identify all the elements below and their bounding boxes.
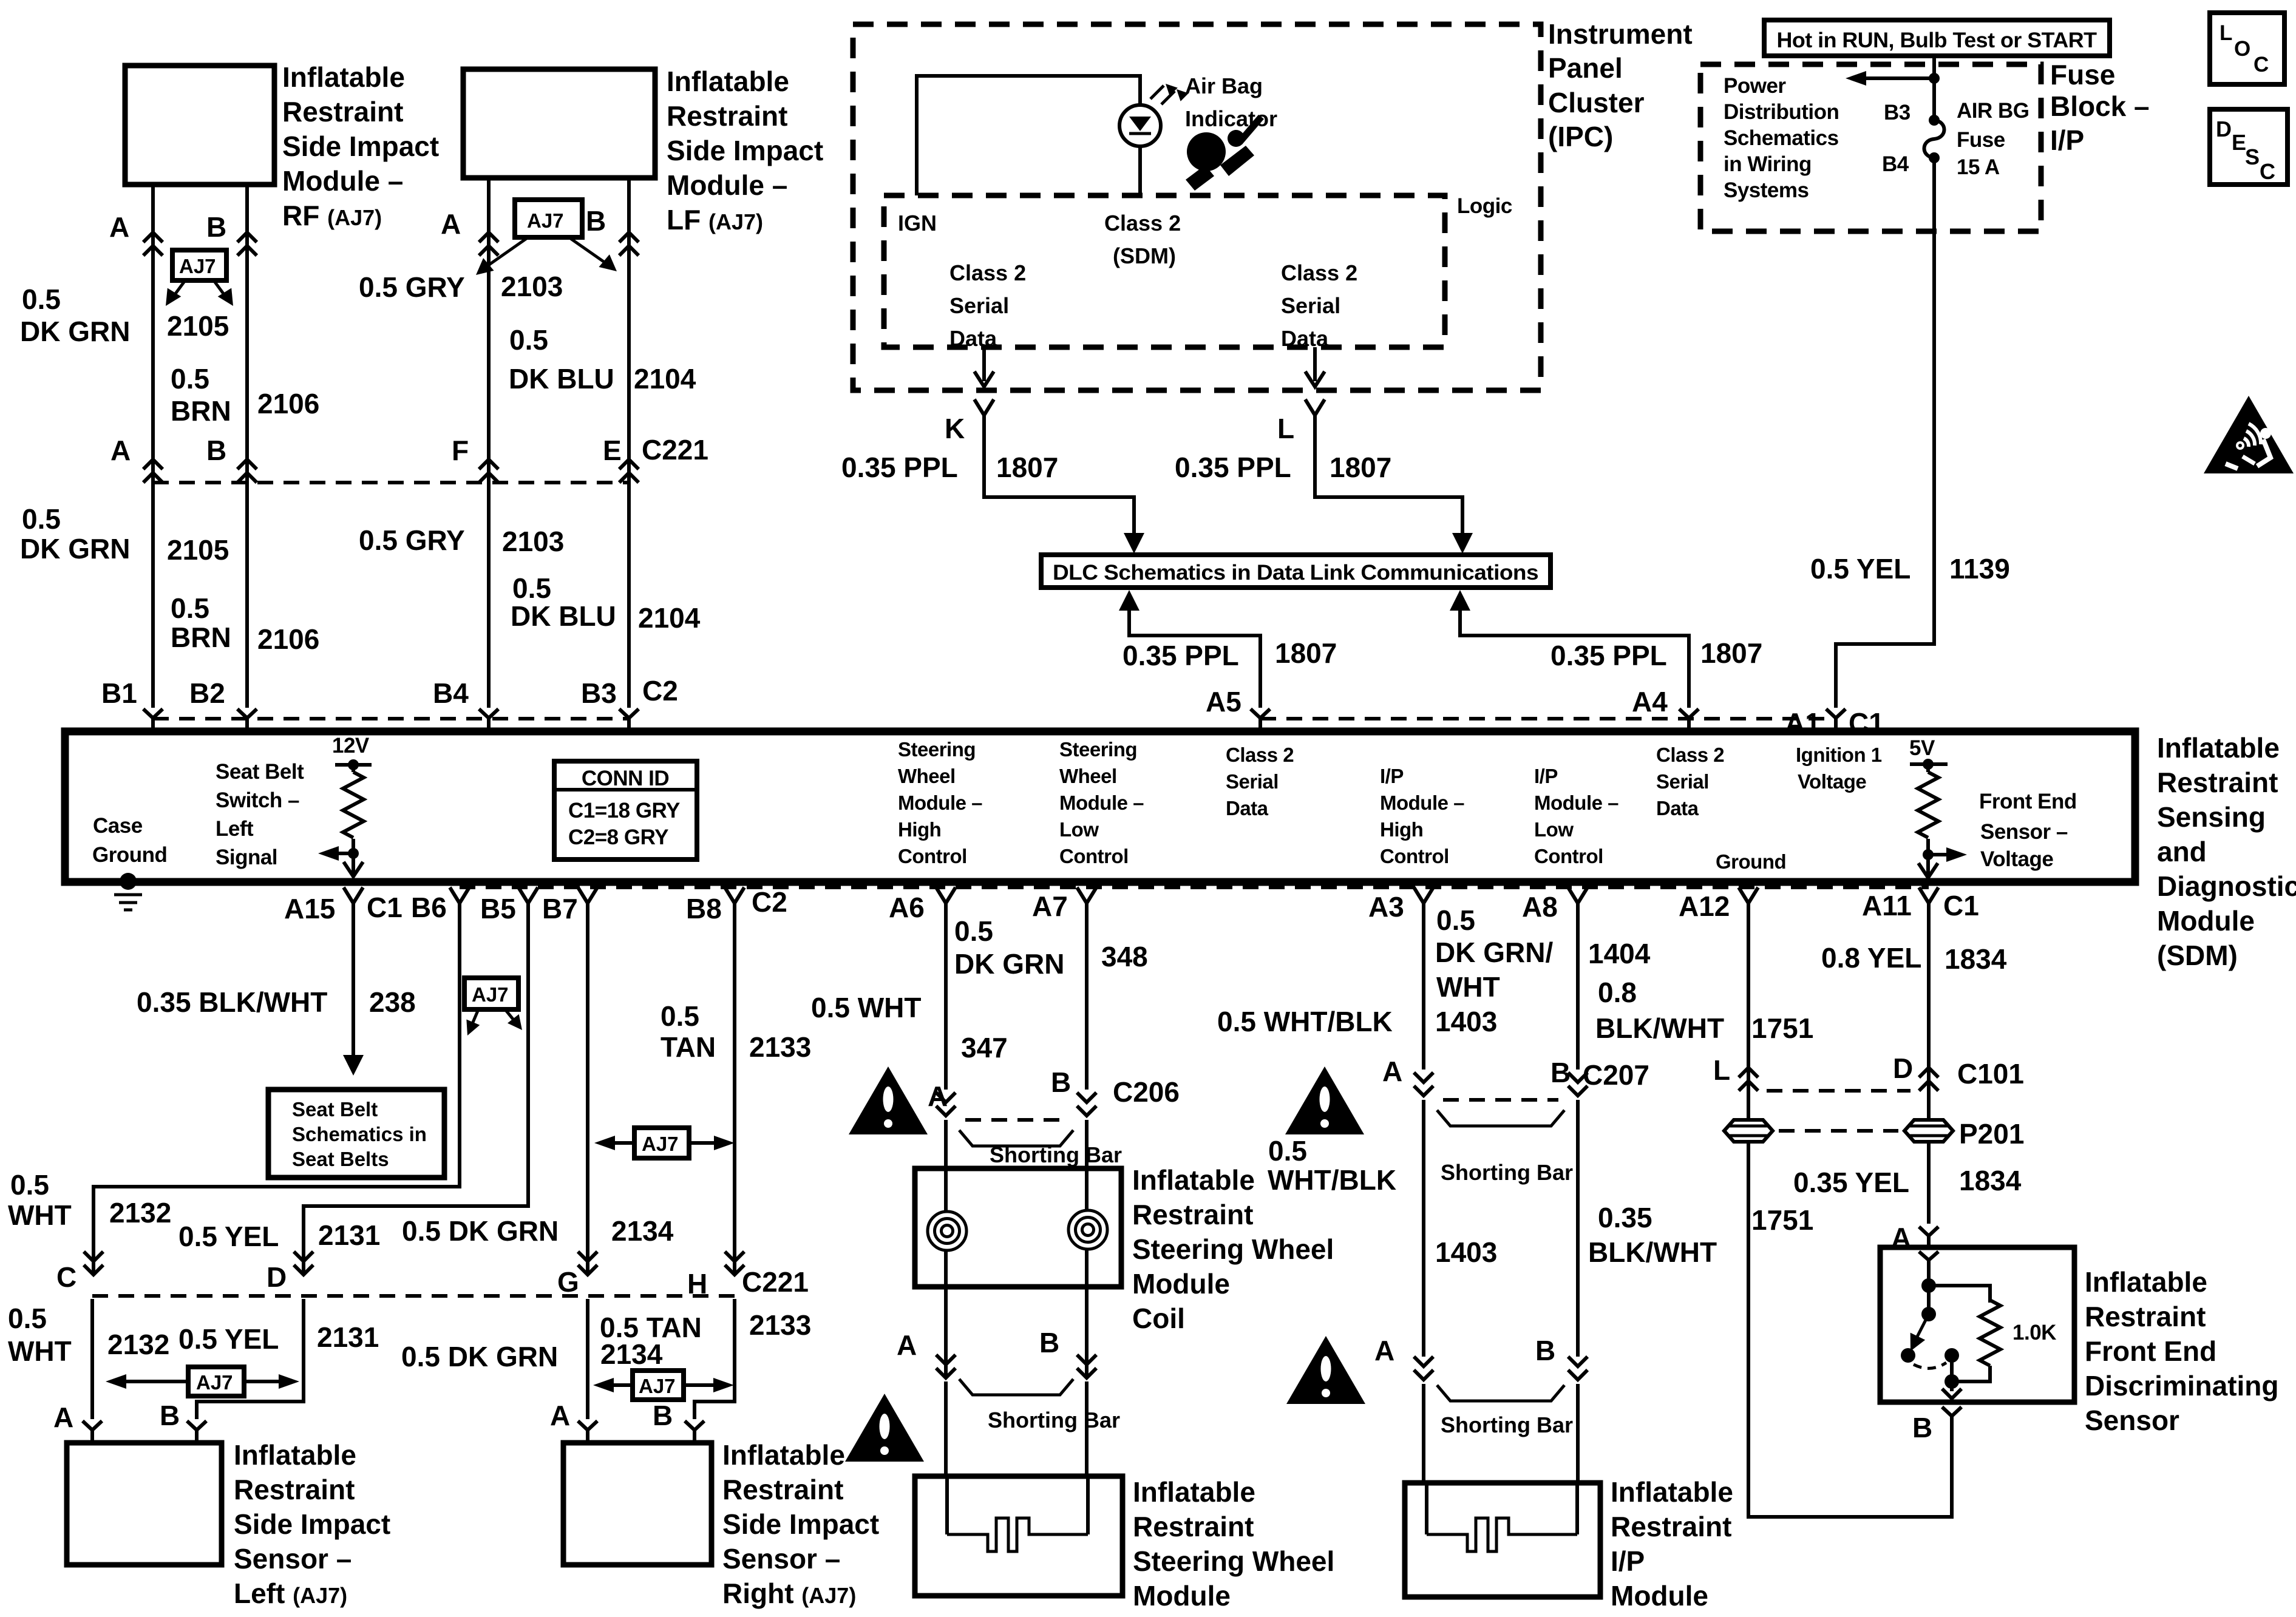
svg-text:A: A [109, 211, 129, 243]
svg-text:BRN: BRN [171, 395, 231, 427]
svg-text:Switch –: Switch – [216, 788, 299, 812]
svg-text:0.8 YEL: 0.8 YEL [1821, 942, 1921, 974]
svg-text:AIR BG: AIR BG [1957, 99, 2029, 123]
svg-text:WHT/BLK: WHT/BLK [1268, 1164, 1396, 1196]
svg-text:1403: 1403 [1435, 1006, 1497, 1037]
svg-text:Restraint: Restraint [2085, 1301, 2206, 1332]
svg-text:2131: 2131 [318, 1219, 380, 1251]
svg-text:0.5 WHT/BLK: 0.5 WHT/BLK [1217, 1006, 1393, 1037]
svg-text:0.35 PPL: 0.35 PPL [841, 452, 958, 483]
svg-text:1834: 1834 [1944, 943, 2007, 975]
svg-text:0.5 GRY: 0.5 GRY [359, 524, 465, 556]
svg-text:Module: Module [1132, 1268, 1230, 1300]
svg-text:347: 347 [961, 1032, 1008, 1063]
svg-text:L: L [1713, 1054, 1730, 1086]
svg-text:BLK/WHT: BLK/WHT [1588, 1236, 1717, 1268]
svg-text:A6: A6 [889, 892, 925, 923]
svg-text:G: G [557, 1266, 579, 1298]
svg-text:A: A [1374, 1335, 1394, 1366]
svg-text:Voltage: Voltage [1798, 770, 1866, 793]
svg-text:0.5: 0.5 [1268, 1135, 1307, 1167]
svg-text:Module: Module [2157, 905, 2255, 937]
svg-text:Panel: Panel [1548, 52, 1623, 84]
svg-text:B: B [1039, 1327, 1059, 1358]
svg-text:0.5: 0.5 [8, 1303, 47, 1334]
svg-text:0.5: 0.5 [661, 1000, 699, 1032]
svg-text:Module: Module [1611, 1580, 1708, 1612]
svg-text:Class 2: Class 2 [1656, 744, 1724, 766]
svg-text:DK BLU: DK BLU [509, 363, 614, 395]
svg-text:C2: C2 [752, 886, 787, 918]
svg-text:DLC Schematics in Data Link Co: DLC Schematics in Data Link Communicatio… [1053, 561, 1538, 585]
svg-text:Fuse: Fuse [2050, 59, 2115, 90]
svg-text:Fuse: Fuse [1957, 128, 2005, 152]
svg-text:A3: A3 [1368, 891, 1404, 923]
svg-text:0.5 DK GRN: 0.5 DK GRN [402, 1215, 559, 1247]
svg-text:Data: Data [949, 326, 997, 351]
svg-text:0.5 GRY: 0.5 GRY [359, 271, 465, 303]
svg-text:BRN: BRN [171, 622, 231, 653]
svg-text:I/P: I/P [1534, 765, 1558, 787]
svg-text:Restraint: Restraint [2157, 767, 2278, 798]
svg-text:Restraint: Restraint [667, 100, 787, 132]
svg-text:2104: 2104 [634, 363, 696, 395]
svg-text:Shorting Bar: Shorting Bar [1441, 1160, 1573, 1185]
svg-text:Steering: Steering [1059, 738, 1137, 761]
svg-text:Module –: Module – [282, 165, 403, 197]
svg-text:E: E [603, 435, 622, 466]
svg-text:C2: C2 [642, 675, 678, 707]
svg-text:B: B [206, 435, 226, 466]
svg-text:(SDM): (SDM) [1113, 243, 1176, 268]
svg-text:Control: Control [1380, 845, 1449, 867]
svg-text:Front End: Front End [2085, 1335, 2216, 1367]
svg-text:Inflatable: Inflatable [1611, 1476, 1733, 1508]
svg-text:Discriminating: Discriminating [2085, 1370, 2279, 1402]
svg-text:DK BLU: DK BLU [511, 600, 616, 632]
svg-text:High: High [898, 818, 941, 841]
svg-text:in Wiring: in Wiring [1724, 152, 1812, 176]
svg-text:Wheel: Wheel [898, 765, 956, 787]
svg-text:Serial: Serial [949, 293, 1009, 318]
svg-text:0.5: 0.5 [512, 572, 551, 604]
svg-text:Inflatable: Inflatable [722, 1439, 845, 1471]
svg-text:Module –: Module – [1380, 792, 1464, 814]
svg-text:1404: 1404 [1588, 938, 1651, 969]
svg-text:C207: C207 [1583, 1059, 1649, 1091]
svg-text:2106: 2106 [257, 388, 319, 419]
svg-text:2105: 2105 [167, 310, 229, 342]
svg-text:O: O [2234, 37, 2250, 61]
svg-text:A7: A7 [1032, 890, 1068, 922]
svg-text:Steering Wheel: Steering Wheel [1133, 1545, 1334, 1577]
svg-text:A: A [550, 1400, 570, 1431]
svg-text:0.35 PPL: 0.35 PPL [1550, 640, 1667, 671]
svg-text:Inflatable: Inflatable [282, 61, 405, 93]
svg-text:AJ7: AJ7 [472, 983, 509, 1006]
svg-text:1751: 1751 [1751, 1204, 1813, 1236]
svg-text:2103: 2103 [501, 271, 563, 302]
svg-text:Indicator: Indicator [1185, 106, 1277, 131]
svg-text:Class 2: Class 2 [1104, 211, 1181, 236]
svg-text:0.5: 0.5 [171, 363, 209, 395]
svg-text:238: 238 [369, 986, 416, 1018]
svg-text:Systems: Systems [1724, 178, 1809, 202]
svg-text:and: and [2157, 836, 2207, 867]
svg-text:Ground: Ground [1716, 850, 1786, 873]
svg-text:AJ7: AJ7 [639, 1375, 676, 1397]
svg-text:1807: 1807 [1330, 452, 1391, 483]
svg-text:High: High [1380, 818, 1423, 841]
svg-text:Class 2: Class 2 [1281, 260, 1357, 285]
svg-text:A: A [53, 1402, 73, 1433]
svg-text:Control: Control [898, 845, 967, 867]
svg-text:C1: C1 [1943, 890, 1979, 921]
svg-text:B: B [1912, 1412, 1932, 1443]
svg-text:Side Impact: Side Impact [282, 131, 439, 162]
svg-text:WHT: WHT [8, 1199, 72, 1231]
svg-text:WHT: WHT [1436, 971, 1500, 1003]
svg-text:0.5 YEL: 0.5 YEL [178, 1323, 279, 1355]
svg-text:D: D [2216, 117, 2232, 141]
svg-text:0.5: 0.5 [10, 1169, 49, 1201]
svg-text:348: 348 [1101, 941, 1148, 972]
svg-text:Coil: Coil [1132, 1303, 1185, 1334]
svg-text:0.35 YEL: 0.35 YEL [1793, 1167, 1909, 1198]
svg-text:B1: B1 [101, 677, 137, 709]
svg-text:Module –: Module – [667, 169, 787, 201]
svg-text:L: L [1277, 413, 1294, 444]
svg-text:Side Impact: Side Impact [667, 135, 823, 166]
svg-text:Restraint: Restraint [1611, 1511, 1731, 1542]
svg-text:IGN: IGN [898, 211, 937, 236]
svg-text:Left: Left [216, 817, 254, 841]
svg-text:Low: Low [1059, 818, 1099, 841]
svg-text:C: C [2260, 159, 2275, 184]
svg-text:Serial: Serial [1656, 770, 1709, 793]
svg-text:L: L [2220, 21, 2232, 45]
svg-text:DK GRN: DK GRN [20, 316, 130, 347]
svg-text:1751: 1751 [1751, 1012, 1813, 1044]
svg-text:Restraint: Restraint [1132, 1199, 1253, 1230]
svg-text:I/P: I/P [2050, 124, 2084, 156]
svg-text:C101: C101 [1957, 1058, 2024, 1090]
svg-text:Shorting Bar: Shorting Bar [1441, 1412, 1573, 1437]
svg-text:0.35 BLK/WHT: 0.35 BLK/WHT [137, 986, 327, 1018]
svg-text:Low: Low [1534, 818, 1574, 841]
svg-text:Steering Wheel: Steering Wheel [1132, 1233, 1334, 1265]
svg-text:Inflatable: Inflatable [2085, 1266, 2207, 1298]
svg-text:Inflatable: Inflatable [234, 1439, 356, 1471]
svg-text:Data: Data [1226, 797, 1269, 819]
svg-text:1403: 1403 [1435, 1236, 1497, 1268]
svg-text:B7: B7 [542, 893, 578, 924]
svg-text:K: K [945, 413, 965, 444]
svg-text:B6: B6 [411, 892, 447, 923]
svg-text:Data: Data [1281, 326, 1329, 351]
svg-text:B: B [1550, 1057, 1571, 1088]
svg-text:12V: 12V [332, 734, 370, 758]
svg-text:0.35 PPL: 0.35 PPL [1175, 452, 1291, 483]
svg-text:Front End: Front End [1979, 790, 2077, 813]
svg-text:Module –: Module – [1059, 792, 1144, 814]
svg-text:E: E [2232, 130, 2246, 155]
svg-text:DK GRN: DK GRN [954, 948, 1064, 980]
svg-text:C221: C221 [742, 1266, 809, 1298]
svg-text:D: D [1893, 1053, 1913, 1084]
svg-text:Ignition 1: Ignition 1 [1796, 744, 1882, 766]
svg-text:1139: 1139 [1949, 553, 2010, 585]
svg-text:2105: 2105 [167, 534, 229, 566]
svg-text:B4: B4 [433, 677, 469, 709]
svg-text:0.5: 0.5 [509, 324, 548, 356]
svg-text:A: A [441, 208, 461, 240]
svg-text:C1: C1 [367, 892, 402, 923]
svg-text:B2: B2 [189, 677, 225, 709]
svg-text:2103: 2103 [502, 526, 564, 557]
svg-text:I/P: I/P [1380, 765, 1404, 787]
svg-text:Wheel: Wheel [1059, 765, 1117, 787]
svg-text:B: B [653, 1400, 673, 1431]
svg-text:D: D [267, 1261, 287, 1293]
svg-text:Shorting Bar: Shorting Bar [990, 1142, 1122, 1167]
svg-text:Sensor –: Sensor – [722, 1543, 840, 1575]
svg-text:0.5 YEL: 0.5 YEL [1810, 553, 1911, 585]
svg-text:B: B [1051, 1066, 1071, 1098]
svg-text:Seat Belts: Seat Belts [292, 1148, 389, 1170]
svg-text:2132: 2132 [109, 1197, 171, 1229]
svg-text:Control: Control [1534, 845, 1603, 867]
svg-text:Serial: Serial [1226, 770, 1279, 793]
svg-text:1807: 1807 [1700, 637, 1762, 669]
svg-text:C206: C206 [1113, 1076, 1180, 1108]
svg-text:A: A [1382, 1056, 1402, 1087]
svg-text:Inflatable: Inflatable [667, 66, 789, 97]
svg-text:Restraint: Restraint [234, 1474, 355, 1505]
svg-text:Sensing: Sensing [2157, 801, 2266, 833]
svg-text:0.5: 0.5 [954, 915, 993, 947]
svg-text:Voltage: Voltage [1980, 847, 2053, 871]
svg-text:B: B [1535, 1335, 1555, 1366]
svg-text:A: A [897, 1329, 917, 1361]
svg-text:0.8: 0.8 [1598, 977, 1637, 1008]
svg-text:B3: B3 [1884, 101, 1911, 124]
svg-text:0.5 YEL: 0.5 YEL [178, 1221, 279, 1252]
svg-text:I/P: I/P [1611, 1545, 1645, 1577]
svg-text:0.5: 0.5 [171, 592, 209, 624]
svg-text:Schematics: Schematics [1724, 126, 1839, 150]
svg-text:(SDM): (SDM) [2157, 940, 2238, 971]
svg-text:Restraint: Restraint [1133, 1511, 1254, 1542]
svg-text:Class 2: Class 2 [949, 260, 1026, 285]
svg-text:1807: 1807 [1275, 637, 1337, 669]
svg-text:1807: 1807 [996, 452, 1058, 483]
svg-text:A12: A12 [1679, 890, 1730, 922]
svg-text:AJ7: AJ7 [196, 1371, 233, 1394]
svg-text:B3: B3 [581, 677, 617, 709]
svg-text:A8: A8 [1522, 891, 1558, 923]
svg-text:S: S [2245, 144, 2260, 169]
svg-text:2132: 2132 [107, 1329, 169, 1360]
svg-text:Sensor –: Sensor – [1980, 820, 2068, 844]
svg-text:Schematics in: Schematics in [292, 1123, 427, 1145]
svg-text:A4: A4 [1632, 686, 1668, 717]
svg-text:1.0K: 1.0K [2012, 1321, 2056, 1344]
svg-text:DK GRN/: DK GRN/ [1435, 937, 1553, 968]
svg-text:Side Impact: Side Impact [722, 1508, 879, 1540]
svg-text:WHT: WHT [8, 1335, 72, 1367]
svg-text:Class 2: Class 2 [1226, 744, 1294, 766]
svg-text:B8: B8 [686, 893, 722, 924]
svg-text:2133: 2133 [749, 1031, 811, 1063]
svg-text:5V: 5V [1909, 736, 1935, 760]
svg-text:B5: B5 [480, 893, 516, 924]
svg-text:15 A: 15 A [1957, 155, 2000, 179]
svg-text:Inflatable: Inflatable [2157, 732, 2280, 764]
svg-text:Sensor –: Sensor – [234, 1543, 352, 1575]
svg-text:Distribution: Distribution [1724, 100, 1839, 124]
svg-text:0.5 DK GRN: 0.5 DK GRN [401, 1341, 558, 1372]
svg-text:C221: C221 [642, 434, 708, 466]
svg-text:B: B [206, 211, 226, 243]
svg-text:B: B [586, 205, 606, 237]
svg-text:Module: Module [1133, 1580, 1231, 1612]
svg-text:Cluster: Cluster [1548, 87, 1645, 118]
svg-text:Steering: Steering [898, 738, 976, 761]
svg-text:Diagnostic: Diagnostic [2157, 870, 2296, 902]
svg-text:AJ7: AJ7 [179, 255, 216, 277]
svg-text:BLK/WHT: BLK/WHT [1595, 1012, 1724, 1044]
svg-text:2106: 2106 [257, 623, 319, 655]
svg-text:Block –: Block – [2050, 90, 2150, 122]
svg-text:Shorting Bar: Shorting Bar [988, 1408, 1120, 1432]
svg-text:F: F [452, 435, 469, 466]
svg-text:Inflatable: Inflatable [1132, 1164, 1255, 1196]
svg-text:Inflatable: Inflatable [1133, 1476, 1255, 1508]
svg-text:Hot in RUN, Bulb Test or START: Hot in RUN, Bulb Test or START [1777, 29, 2097, 52]
svg-text:Side Impact: Side Impact [234, 1508, 390, 1540]
svg-text:2134: 2134 [611, 1215, 674, 1247]
svg-text:P201: P201 [1959, 1118, 2024, 1150]
svg-text:A: A [110, 435, 131, 466]
svg-text:Restraint: Restraint [282, 96, 403, 127]
svg-text:Ground: Ground [92, 843, 167, 867]
svg-text:Instrument: Instrument [1548, 18, 1693, 50]
svg-text:Seat Belt: Seat Belt [216, 760, 304, 784]
svg-text:Logic: Logic [1457, 194, 1512, 218]
svg-text:Air Bag: Air Bag [1185, 73, 1263, 98]
svg-text:A11: A11 [1862, 890, 1912, 921]
svg-text:Module –: Module – [898, 792, 982, 814]
svg-text:Signal: Signal [216, 846, 277, 869]
svg-text:C: C [2254, 53, 2269, 76]
svg-text:Power: Power [1724, 74, 1786, 98]
svg-text:Seat Belt: Seat Belt [292, 1098, 378, 1120]
svg-text:0.5: 0.5 [22, 283, 61, 315]
svg-text:0.35 PPL: 0.35 PPL [1123, 640, 1239, 671]
svg-text:C: C [56, 1261, 76, 1293]
svg-text:CONN ID: CONN ID [582, 767, 669, 790]
svg-text:0.5 WHT: 0.5 WHT [811, 992, 921, 1023]
svg-text:B4: B4 [1882, 152, 1909, 176]
svg-text:2104: 2104 [638, 602, 701, 634]
svg-text:B: B [160, 1400, 180, 1431]
svg-text:2133: 2133 [749, 1309, 811, 1341]
svg-text:DK GRN: DK GRN [20, 533, 130, 564]
svg-text:Control: Control [1059, 845, 1129, 867]
svg-text:(IPC): (IPC) [1548, 121, 1613, 152]
svg-text:AJ7: AJ7 [642, 1133, 679, 1155]
svg-text:A5: A5 [1206, 686, 1241, 717]
svg-text:A15: A15 [284, 893, 335, 924]
svg-text:0.35: 0.35 [1598, 1202, 1652, 1233]
svg-text:TAN: TAN [661, 1031, 716, 1063]
svg-text:1834: 1834 [1959, 1165, 2022, 1196]
svg-text:Serial: Serial [1281, 293, 1340, 318]
svg-text:Case: Case [93, 814, 143, 838]
svg-text:AJ7: AJ7 [527, 209, 564, 232]
svg-text:Sensor: Sensor [2085, 1405, 2179, 1436]
svg-text:Module –: Module – [1534, 792, 1618, 814]
svg-text:0.5: 0.5 [22, 503, 61, 535]
svg-text:0.5: 0.5 [1436, 904, 1475, 936]
svg-text:C2=8 GRY: C2=8 GRY [568, 825, 668, 849]
svg-text:2134: 2134 [600, 1338, 663, 1370]
svg-text:Data: Data [1656, 797, 1699, 819]
svg-text:2131: 2131 [317, 1321, 379, 1353]
svg-text:C1=18 GRY: C1=18 GRY [568, 799, 680, 822]
svg-text:Restraint: Restraint [722, 1474, 843, 1505]
